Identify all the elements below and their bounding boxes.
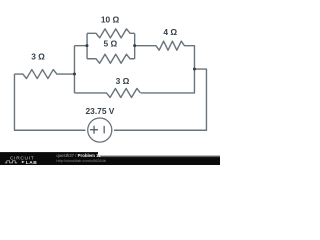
svg-text:LAB: LAB (26, 160, 37, 165)
svg-text:5 Ω: 5 Ω (104, 38, 118, 48)
svg-text:3 Ω: 3 Ω (31, 52, 45, 62)
svg-text:23.75 V: 23.75 V (86, 106, 115, 116)
svg-text:10 Ω: 10 Ω (101, 14, 120, 24)
svg-text:4 Ω: 4 Ω (163, 27, 177, 37)
svg-text:http://circuitlab.com/c56264b: http://circuitlab.com/c56264b (56, 158, 106, 163)
svg-text:3 Ω: 3 Ω (116, 76, 130, 86)
